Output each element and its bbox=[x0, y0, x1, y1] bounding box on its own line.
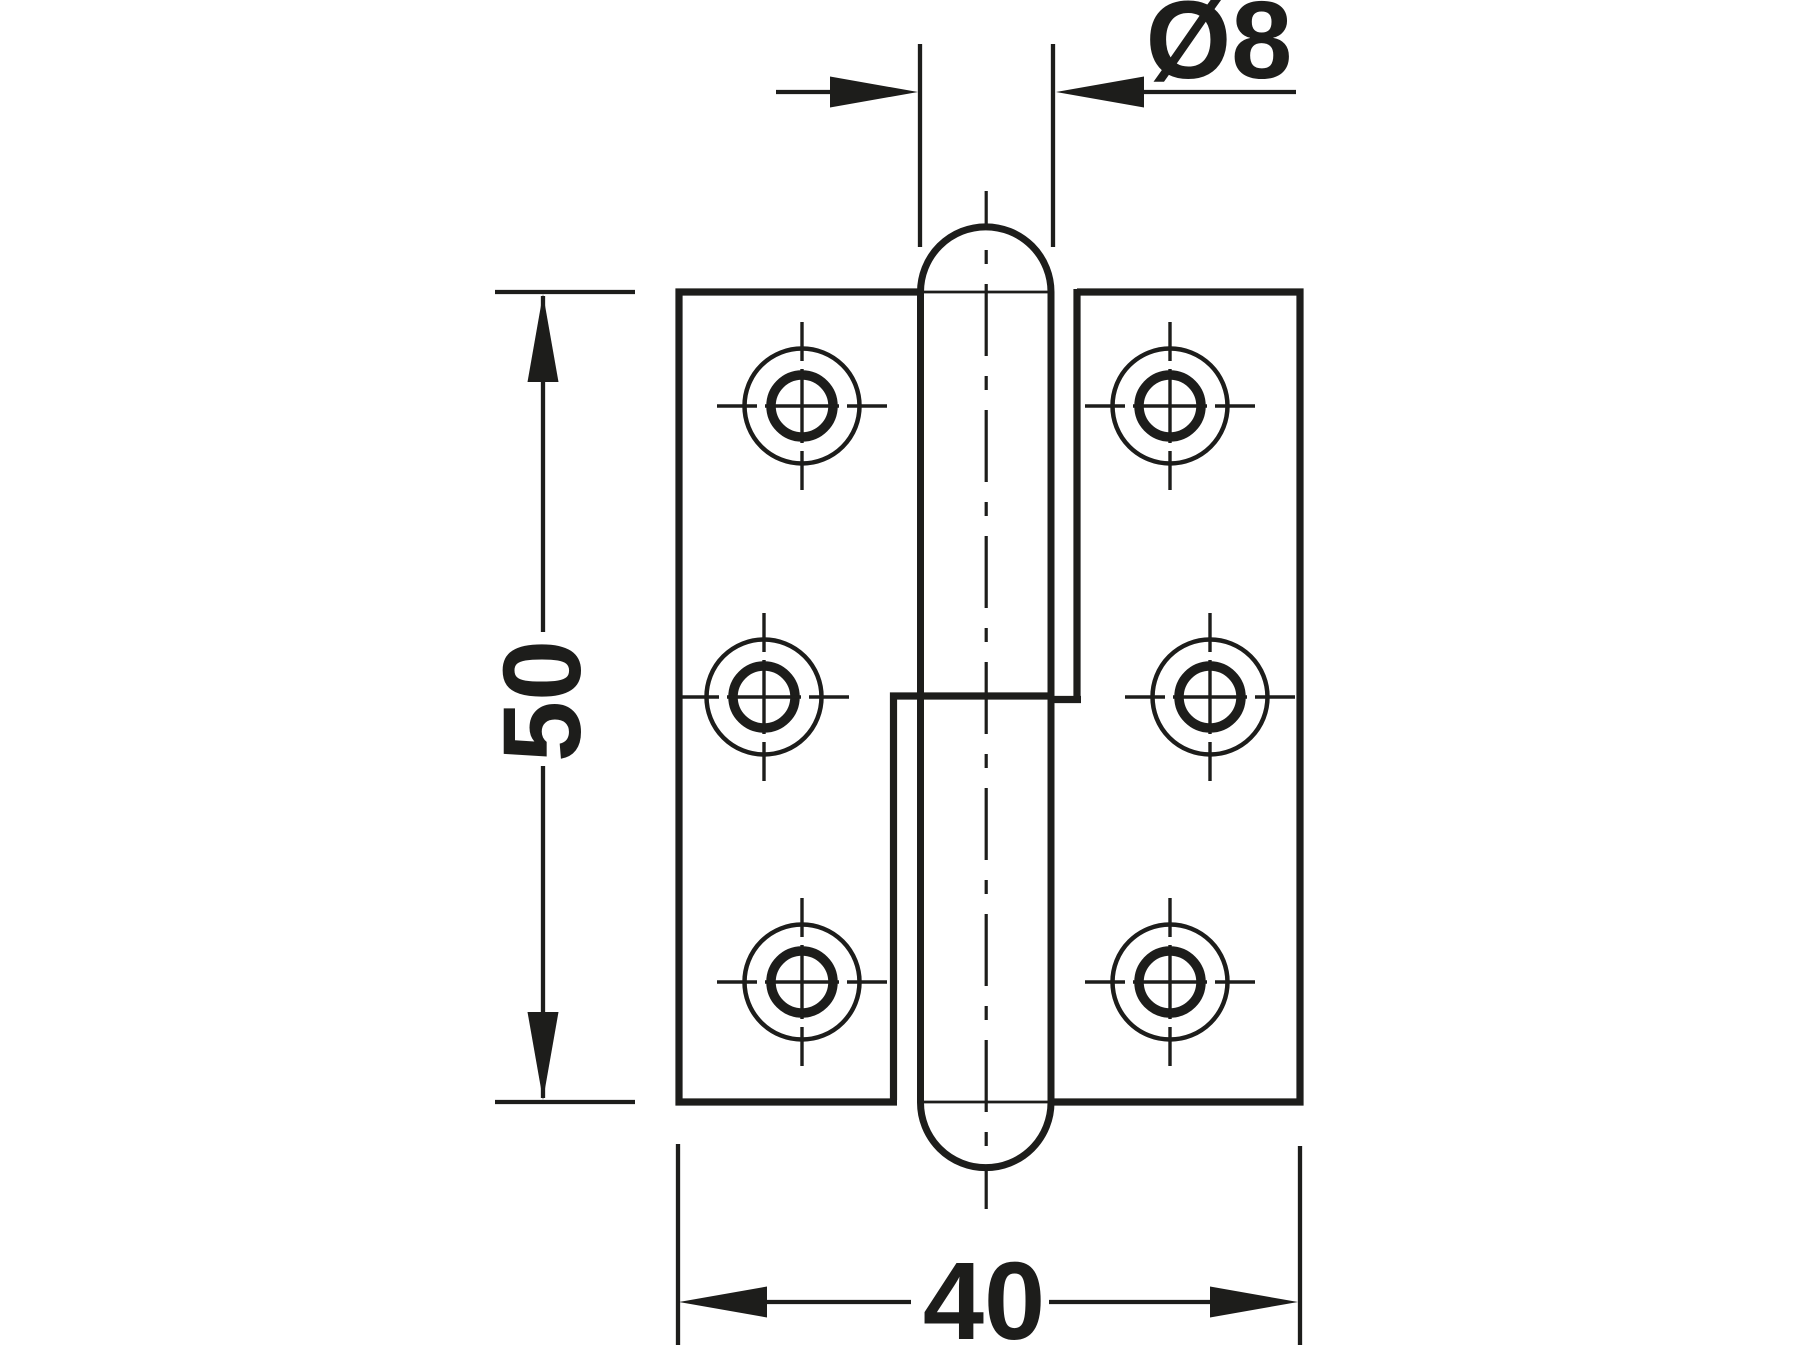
height dimension tick top bbox=[495, 290, 635, 294]
upper knuckle sleeve bbox=[921, 227, 1052, 696]
screw hole middle-right bbox=[1125, 613, 1295, 781]
width dimension extension line right bbox=[1298, 1146, 1302, 1345]
width dimension line right part bbox=[1049, 1300, 1214, 1304]
height dimension tick bottom bbox=[495, 1100, 635, 1104]
diameter dimension extension line left bbox=[918, 44, 922, 247]
height dimension arrow pointing up bbox=[528, 294, 559, 382]
diameter dimension line left part bbox=[776, 90, 836, 94]
width dimension arrow pointing left bbox=[679, 1287, 767, 1318]
right leaf outer edge bbox=[1048, 292, 1300, 1102]
pin centre line bbox=[985, 191, 988, 1209]
height dimension line lower part bbox=[541, 766, 545, 1098]
screw hole top-left bbox=[717, 322, 887, 490]
plate top edge through knuckle bbox=[921, 291, 1051, 294]
height dimension arrow pointing down bbox=[528, 1012, 559, 1100]
width dimension arrow pointing right bbox=[1210, 1287, 1298, 1318]
plate bottom edge through knuckle bbox=[921, 1101, 1051, 1104]
right leaf inner edge bbox=[1050, 289, 1081, 700]
left leaf outer edge bbox=[679, 292, 924, 1102]
width dimension extension line left bbox=[676, 1144, 680, 1345]
screw hole top-right bbox=[1085, 322, 1255, 490]
lower knuckle pin bbox=[921, 696, 1052, 1168]
width dimension line left part bbox=[763, 1300, 911, 1304]
height dimension line upper part bbox=[541, 296, 545, 632]
diameter dimension line right part bbox=[1140, 90, 1296, 94]
screw hole middle-left bbox=[679, 613, 849, 781]
screw hole bottom-left bbox=[717, 898, 887, 1066]
diameter dimension arrow pointing left bbox=[1056, 77, 1144, 108]
svg-text:Ø8: Ø8 bbox=[1146, 0, 1293, 102]
left leaf notch edge bbox=[894, 696, 1055, 1100]
screw hole bottom-right bbox=[1085, 898, 1255, 1066]
svg-text:50: 50 bbox=[481, 640, 604, 762]
svg-text:40: 40 bbox=[923, 1240, 1045, 1350]
diameter dimension arrow pointing right bbox=[830, 77, 918, 108]
diameter dimension extension line right bbox=[1051, 44, 1055, 247]
